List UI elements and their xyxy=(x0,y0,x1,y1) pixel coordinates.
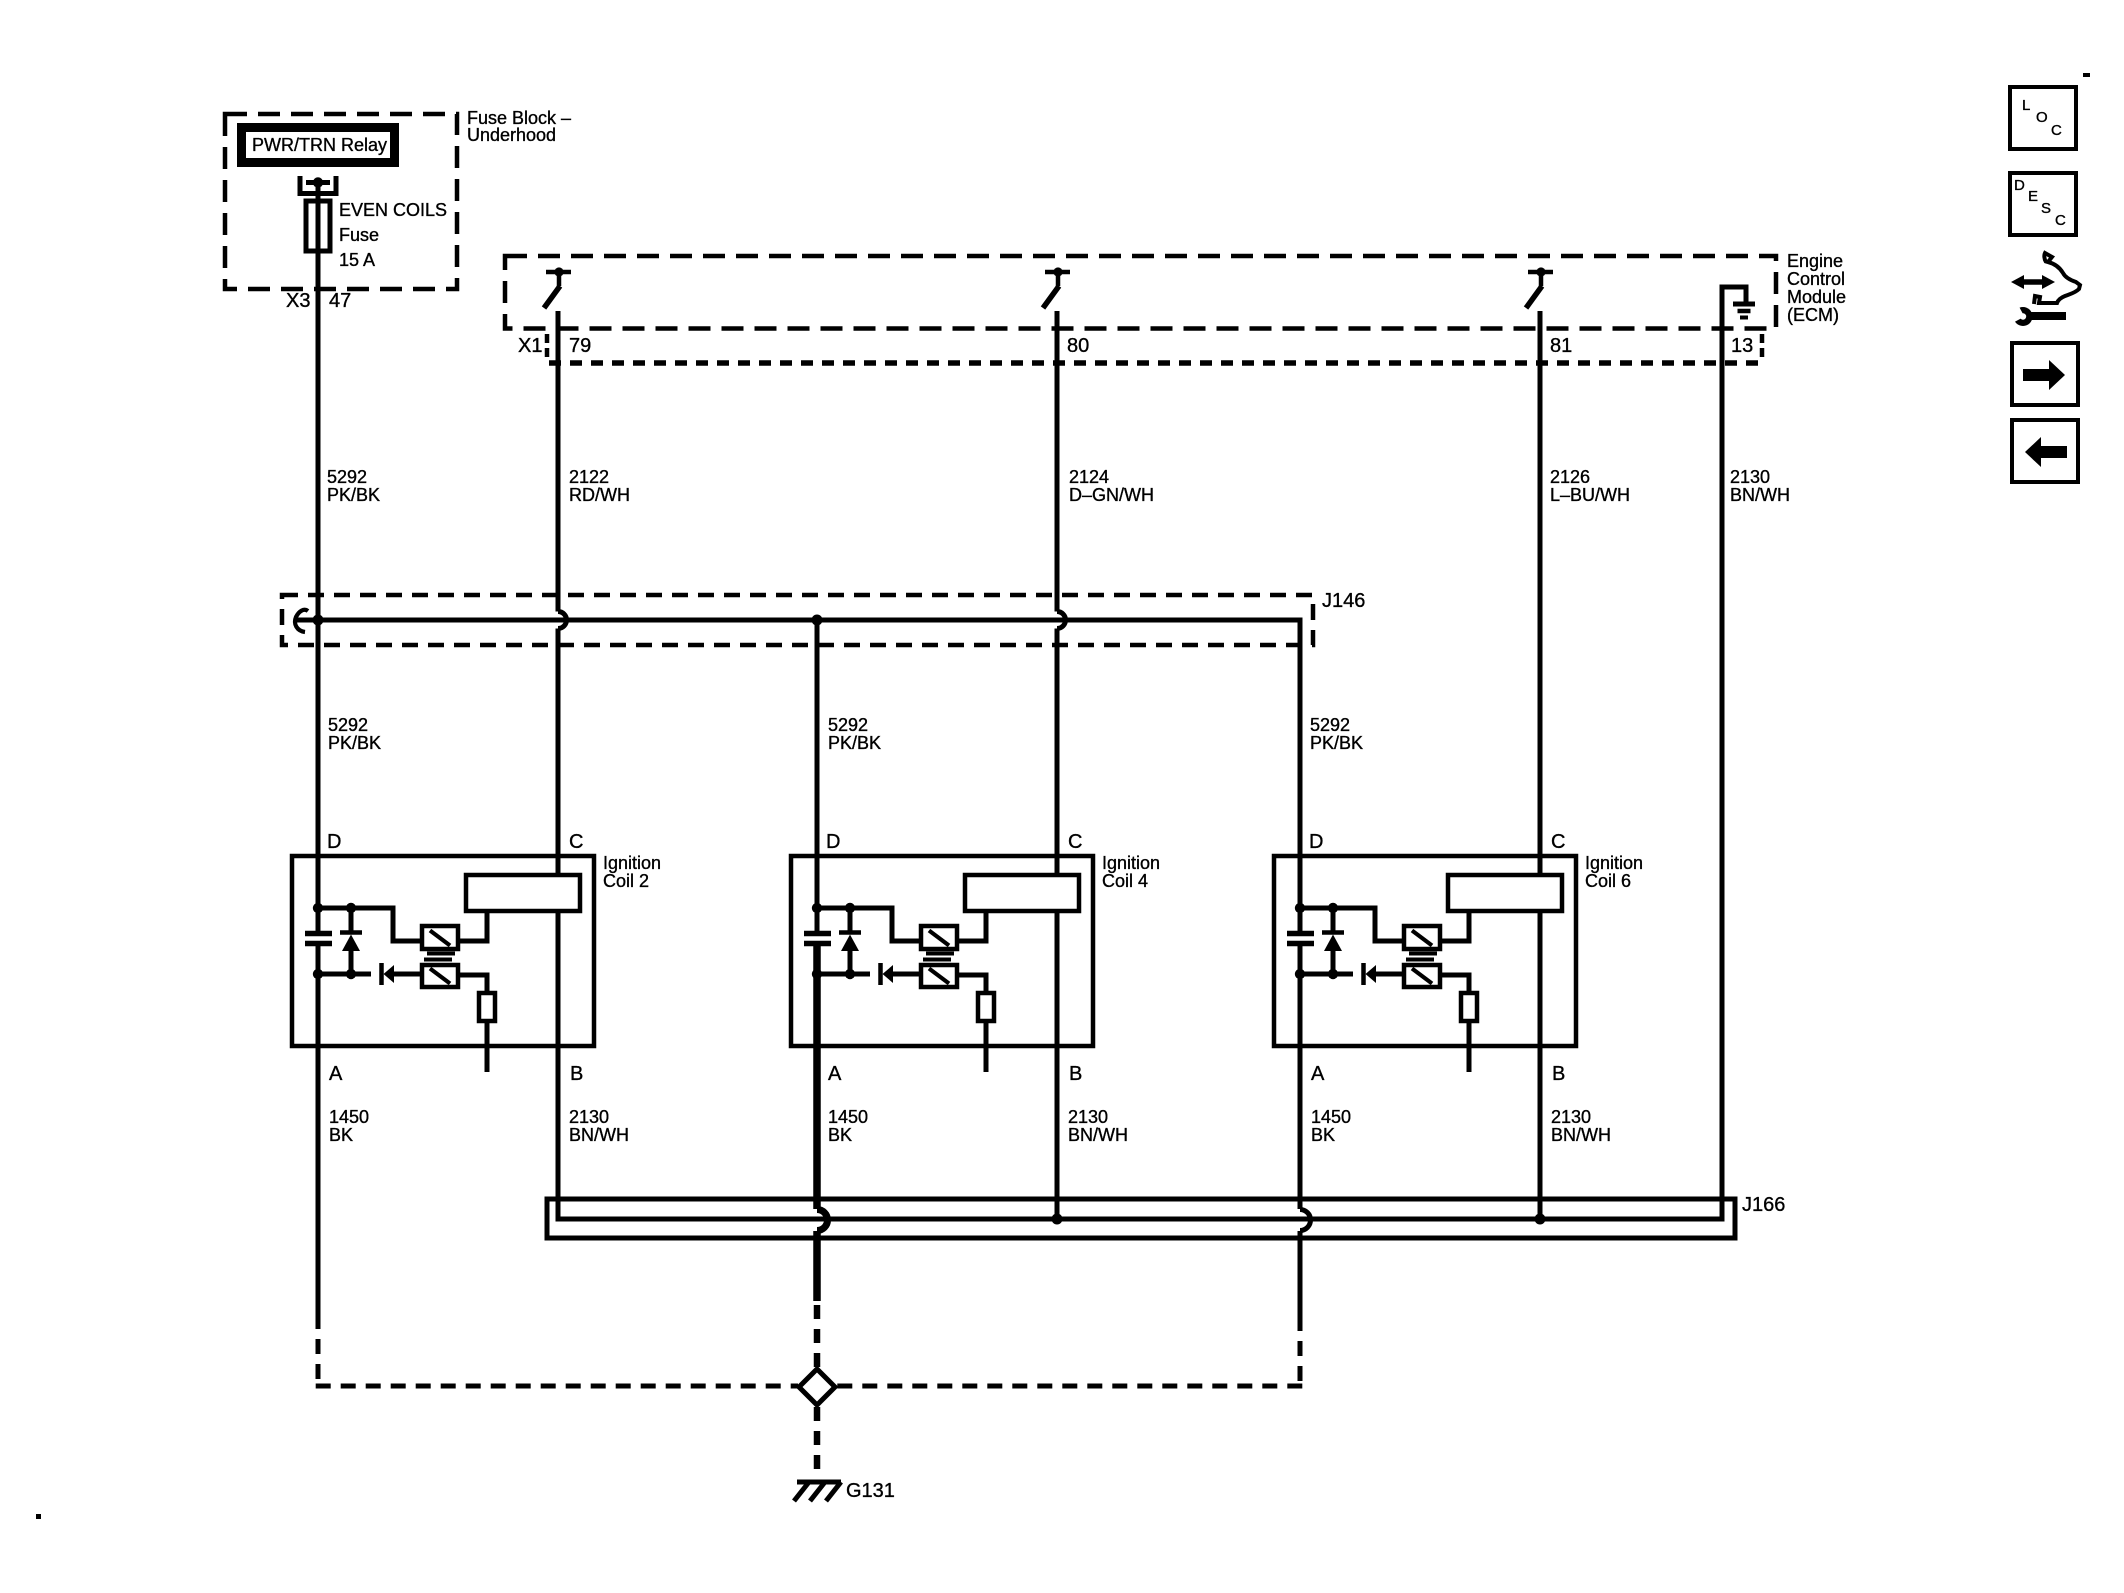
svg-text:X3: X3 xyxy=(286,290,310,312)
svg-text:2124: 2124 xyxy=(1069,467,1109,487)
secondary winding (coil 6) xyxy=(1404,965,1440,987)
wire 1450 BK coil 6 A xyxy=(1298,945,1303,1209)
resistor (coil 6) xyxy=(1461,993,1477,1021)
svg-text:Module: Module xyxy=(1787,287,1846,307)
wire: D pin junction to capacitor (coil 4) xyxy=(815,906,820,933)
wire 2126 L-BU/WH (ECM 81 to coil 6 C) xyxy=(1538,311,1543,875)
wire: ground row (coil 2) xyxy=(318,972,371,977)
ECM internal ground (pin 13) xyxy=(1722,287,1755,318)
svg-text:C: C xyxy=(1068,831,1082,853)
secondary winding (coil 2) xyxy=(422,965,458,987)
svg-text:D: D xyxy=(2014,177,2025,194)
svg-text:1450: 1450 xyxy=(329,1107,369,1127)
module block (coil 2) xyxy=(466,875,580,911)
wire 2124 D-GN/WH (ECM 80 to coil 4 C) xyxy=(1055,311,1060,612)
wire 1450 BK coil 2 A xyxy=(316,945,321,1316)
ignition coil 4 assembly xyxy=(791,831,1160,1145)
connector separator right of pin 13 xyxy=(1760,334,1765,358)
wire: secondary to resistor (coil 6) xyxy=(1440,975,1469,993)
svg-text:79: 79 xyxy=(569,335,591,357)
svg-text:2130: 2130 xyxy=(1730,467,1770,487)
wire: primary to module block (coil 6) xyxy=(1440,911,1469,941)
svg-text:C: C xyxy=(2055,212,2066,229)
wire: dashed diamond to G131 xyxy=(814,1407,821,1478)
svg-text:PK/BK: PK/BK xyxy=(1310,733,1363,753)
svg-text:EVEN COILS: EVEN COILS xyxy=(339,200,447,220)
svg-text:RD/WH: RD/WH xyxy=(569,485,630,505)
svg-text:J146: J146 xyxy=(1322,590,1365,612)
primary winding (coil 4) xyxy=(921,926,957,949)
svg-text:J166: J166 xyxy=(1742,1194,1785,1216)
svg-text:A: A xyxy=(828,1063,842,1085)
node: J146 branch to coil 4 xyxy=(812,615,823,626)
relay PWR/TRN Relay box xyxy=(242,128,395,163)
svg-text:47: 47 xyxy=(329,290,351,312)
node: supply junction row (coil 2) xyxy=(313,903,323,913)
wire hop: 2122 over J146 xyxy=(558,612,567,629)
svg-text:5292: 5292 xyxy=(1310,715,1350,735)
wire: ground row (coil 4) xyxy=(817,972,870,977)
core bars (coil 2) xyxy=(427,952,455,956)
wire 2130 BN/WH coil 4 B xyxy=(1055,911,1060,1219)
wire: secondary to resistor (coil 2) xyxy=(458,975,487,993)
svg-text:Fuse: Fuse xyxy=(339,225,379,245)
svg-text:BN/WH: BN/WH xyxy=(1551,1125,1611,1145)
icon button LOC xyxy=(2010,87,2076,149)
svg-text:S: S xyxy=(2041,200,2051,217)
stray scan mark top right xyxy=(2083,73,2090,77)
svg-text:Ignition: Ignition xyxy=(1102,853,1160,873)
diode D1 vertical (coil 4) xyxy=(848,908,853,932)
wire 2130 BN/WH coil 6 B xyxy=(1538,911,1543,1219)
svg-text:Engine: Engine xyxy=(1787,251,1843,271)
svg-text:A: A xyxy=(1311,1063,1325,1085)
connector X1 separator left xyxy=(545,334,550,358)
svg-text:5292: 5292 xyxy=(328,715,368,735)
svg-text:C: C xyxy=(569,831,583,853)
svg-text:A: A xyxy=(329,1063,343,1085)
svg-text:1450: 1450 xyxy=(828,1107,868,1127)
wire: supply row to primary winding (coil 6) xyxy=(1300,908,1404,941)
splice diamond (ground distribution) xyxy=(799,1369,835,1405)
svg-text:O: O xyxy=(2036,109,2048,126)
svg-text:G131: G131 xyxy=(846,1480,895,1502)
wire: D pin junction to capacitor (coil 6) xyxy=(1298,906,1303,933)
svg-text:2130: 2130 xyxy=(1068,1107,1108,1127)
wire: D pin junction to capacitor (coil 2) xyxy=(316,906,321,933)
splice wire curl (J146 left end) xyxy=(295,610,308,632)
svg-text:C: C xyxy=(2051,122,2062,139)
node: ground junction row (coil 4) xyxy=(812,969,822,979)
svg-text:13: 13 xyxy=(1731,335,1753,357)
svg-text:Coil 2: Coil 2 xyxy=(603,871,649,891)
wire: supply row to primary winding (coil 2) xyxy=(318,908,422,941)
icon vehicle swap (arrows, outline, wrench) xyxy=(2002,253,2080,326)
wire hop: coil 4 ground over J166 xyxy=(817,1210,828,1231)
stray scan mark bottom left xyxy=(36,1514,41,1519)
capacitor (coil 2) xyxy=(305,931,332,937)
svg-text:15 A: 15 A xyxy=(339,250,375,270)
svg-text:Ignition: Ignition xyxy=(603,853,661,873)
capacitor (coil 4) xyxy=(804,931,831,937)
svg-text:B: B xyxy=(1552,1063,1565,1085)
spark output stub (coil 2) xyxy=(485,1021,490,1072)
wire 5292 PK/BK branch to coil 4 D xyxy=(815,620,820,908)
svg-text:E: E xyxy=(2028,188,2038,205)
svg-text:PWR/TRN Relay: PWR/TRN Relay xyxy=(252,135,387,155)
wire 2122 RD/WH (ECM 79 to coil 2 C) xyxy=(556,311,561,612)
core bars (coil 6) xyxy=(1409,952,1437,956)
wire hop: 2124 over J146 xyxy=(1057,612,1066,629)
svg-text:2130: 2130 xyxy=(1551,1107,1591,1127)
wire: primary to module block (coil 2) xyxy=(458,911,487,941)
diode D2 horizontal (coil 4) xyxy=(878,963,883,985)
wire 1450 BK coil 2 dashed to ground xyxy=(316,1314,321,1383)
icon button back (left arrow) xyxy=(2012,420,2078,482)
svg-text:5292: 5292 xyxy=(828,715,868,735)
svg-text:81: 81 xyxy=(1550,335,1572,357)
ignition coil 2 box xyxy=(292,856,594,1046)
icon button DESC xyxy=(2010,173,2076,235)
primary winding (coil 6) xyxy=(1404,926,1440,949)
svg-text:PK/BK: PK/BK xyxy=(327,485,380,505)
svg-text:PK/BK: PK/BK xyxy=(828,733,881,753)
ignition coil 6 assembly xyxy=(1274,831,1643,1145)
node: J146 at fuse feed xyxy=(313,615,324,626)
node: ground junction row (coil 6) xyxy=(1295,969,1305,979)
svg-text:B: B xyxy=(1069,1063,1082,1085)
engine control module dashed box xyxy=(505,256,1776,329)
svg-text:D: D xyxy=(327,831,341,853)
ignition coil 2 assembly xyxy=(292,831,661,1145)
svg-text:L–BU/WH: L–BU/WH xyxy=(1550,485,1630,505)
resistor (coil 2) xyxy=(479,993,495,1021)
fuse holder clip xyxy=(300,176,336,194)
wire 5292 PK/BK from fuse xyxy=(316,183,321,933)
node: fuse feed dot xyxy=(313,177,323,187)
svg-text:BN/WH: BN/WH xyxy=(1068,1125,1128,1145)
svg-text:BK: BK xyxy=(828,1125,852,1145)
svg-text:Underhood: Underhood xyxy=(467,125,556,145)
ground G131 symbol xyxy=(794,1482,841,1501)
svg-text:C: C xyxy=(1551,831,1565,853)
node: ground junction row (coil 2) xyxy=(313,969,323,979)
wire: ground row (coil 6) xyxy=(1300,972,1353,977)
fuse block underhood dashed box xyxy=(225,114,457,289)
wire 2130 BN/WH bus (coil B pins, J166, ECM 13) xyxy=(558,287,1722,1219)
module block (coil 6) xyxy=(1448,875,1562,911)
ignition coil 6 box xyxy=(1274,856,1576,1046)
ECM output driver 1 (pin 79) xyxy=(544,267,571,308)
primary winding (coil 2) xyxy=(422,926,458,949)
wire: secondary to resistor (coil 4) xyxy=(957,975,986,993)
node: supply junction row (coil 4) xyxy=(812,903,822,913)
node: J166 at coil 4 B xyxy=(1052,1214,1063,1225)
diode D1 vertical (coil 2) xyxy=(349,908,354,932)
secondary winding (coil 4) xyxy=(921,965,957,987)
core bars (coil 4) xyxy=(926,952,954,956)
svg-text:Ignition: Ignition xyxy=(1585,853,1643,873)
wire 1450 BK coil 4 A (thick ground path) xyxy=(813,945,821,1209)
svg-text:(ECM): (ECM) xyxy=(1787,305,1839,325)
svg-text:BK: BK xyxy=(1311,1125,1335,1145)
svg-text:2126: 2126 xyxy=(1550,467,1590,487)
resistor (coil 4) xyxy=(978,993,994,1021)
wire: J146 splice bus 5292 xyxy=(296,620,1300,908)
svg-text:B: B xyxy=(570,1063,583,1085)
fuse EVEN COILS 15 A xyxy=(306,201,330,251)
svg-text:PK/BK: PK/BK xyxy=(328,733,381,753)
spark output stub (coil 4) xyxy=(984,1021,989,1072)
node: supply junction row (coil 6) xyxy=(1295,903,1305,913)
svg-text:BK: BK xyxy=(329,1125,353,1145)
ECM output driver 3 (pin 81) xyxy=(1526,267,1553,308)
ECM output driver 2 (pin 80) xyxy=(1043,267,1070,308)
svg-text:Control: Control xyxy=(1787,269,1845,289)
svg-text:2130: 2130 xyxy=(569,1107,609,1127)
svg-text:1450: 1450 xyxy=(1311,1107,1351,1127)
wire: primary to module block (coil 4) xyxy=(957,911,986,941)
ignition coil 4 box xyxy=(791,856,1093,1046)
svg-text:Coil 4: Coil 4 xyxy=(1102,871,1148,891)
spark output stub (coil 6) xyxy=(1467,1021,1472,1072)
svg-text:D: D xyxy=(1309,831,1323,853)
svg-text:L: L xyxy=(2022,97,2030,114)
svg-text:D–GN/WH: D–GN/WH xyxy=(1069,485,1154,505)
svg-text:X1: X1 xyxy=(518,335,542,357)
wire: dashed to G131 diamond xyxy=(814,1305,821,1369)
capacitor (coil 6) xyxy=(1287,931,1314,937)
icon button next (right arrow) xyxy=(2012,343,2078,405)
svg-text:5292: 5292 xyxy=(327,467,367,487)
svg-text:BN/WH: BN/WH xyxy=(1730,485,1790,505)
wire hop: coil 6 ground over J166 xyxy=(1300,1210,1311,1231)
svg-text:BN/WH: BN/WH xyxy=(569,1125,629,1145)
node: J166 at coil 6 B xyxy=(1535,1214,1546,1225)
svg-text:80: 80 xyxy=(1067,335,1089,357)
wire 1450 BK coil 6 dashed to ground xyxy=(836,1384,1302,1389)
wire: fuse holder bus xyxy=(306,180,330,185)
splice J166 box xyxy=(547,1199,1735,1238)
wire: supply row to primary winding (coil 4) xyxy=(817,908,921,941)
svg-text:D: D xyxy=(826,831,840,853)
svg-text:Coil 6: Coil 6 xyxy=(1585,871,1631,891)
diode D2 horizontal (coil 6) xyxy=(1361,963,1366,985)
svg-text:2122: 2122 xyxy=(569,467,609,487)
splice J146 dashed box xyxy=(282,595,1313,645)
connector X1 dotted line xyxy=(549,360,1766,366)
module block (coil 4) xyxy=(965,875,1079,911)
diode D1 vertical (coil 6) xyxy=(1331,908,1336,932)
diode D2 horizontal (coil 2) xyxy=(379,963,384,985)
